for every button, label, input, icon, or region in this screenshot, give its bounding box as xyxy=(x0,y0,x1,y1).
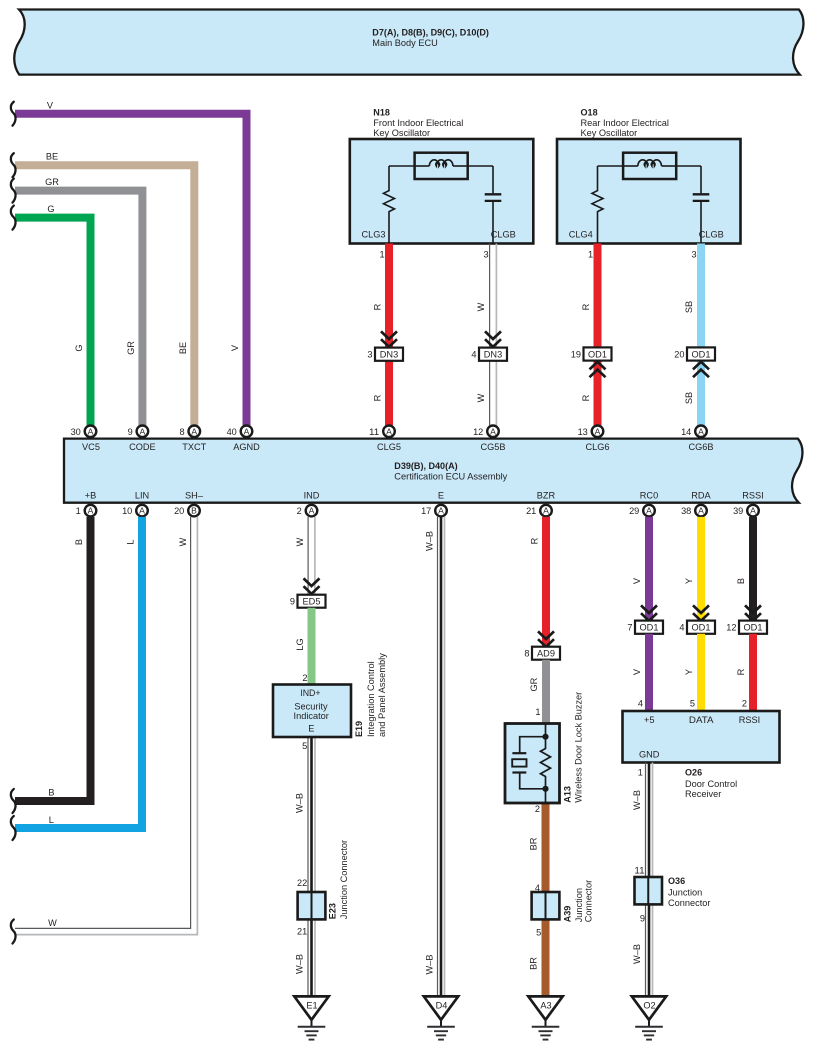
svg-text:Y: Y xyxy=(684,578,694,584)
svg-text:A: A xyxy=(543,506,549,516)
svg-text:RSSI: RSSI xyxy=(739,715,760,725)
svg-text:A: A xyxy=(191,426,197,436)
svg-text:+B: +B xyxy=(85,491,97,501)
svg-text:RDA: RDA xyxy=(691,491,711,501)
svg-text:E: E xyxy=(438,491,444,501)
svg-text:IND+: IND+ xyxy=(300,688,320,698)
svg-text:VC5: VC5 xyxy=(82,442,100,452)
svg-text:L: L xyxy=(126,539,136,544)
svg-text:38: 38 xyxy=(681,506,691,516)
svg-text:SB: SB xyxy=(684,392,694,404)
svg-text:A: A xyxy=(244,426,250,436)
svg-text:11: 11 xyxy=(634,866,644,876)
svg-text:R: R xyxy=(736,668,746,675)
svg-text:W–B: W–B xyxy=(295,793,305,813)
svg-text:SH–: SH– xyxy=(185,491,204,501)
svg-text:5: 5 xyxy=(536,927,541,937)
svg-text:13: 13 xyxy=(578,427,588,437)
svg-text:Integration Control: Integration Control xyxy=(366,661,376,737)
svg-text:Main Body ECU: Main Body ECU xyxy=(372,38,437,48)
svg-text:IND: IND xyxy=(304,491,320,501)
svg-text:A: A xyxy=(309,506,315,516)
svg-text:Connector: Connector xyxy=(583,880,593,922)
svg-text:A: A xyxy=(490,426,496,436)
svg-text:5: 5 xyxy=(690,699,695,709)
svg-text:A: A xyxy=(140,426,146,436)
svg-text:9: 9 xyxy=(640,913,645,923)
svg-text:GR: GR xyxy=(45,177,59,187)
svg-text:21: 21 xyxy=(297,926,307,936)
svg-text:AGND: AGND xyxy=(233,442,260,452)
svg-text:Y: Y xyxy=(684,669,694,675)
svg-text:40: 40 xyxy=(227,427,237,437)
svg-text:CLGB: CLGB xyxy=(491,229,516,239)
svg-text:14: 14 xyxy=(681,427,691,437)
svg-text:2: 2 xyxy=(297,506,302,516)
svg-text:12: 12 xyxy=(726,623,736,633)
svg-text:Indicator: Indicator xyxy=(294,711,329,721)
svg-text:OD1: OD1 xyxy=(692,623,711,633)
svg-text:3: 3 xyxy=(483,249,488,259)
svg-text:Wireless Door Lock Buzzer: Wireless Door Lock Buzzer xyxy=(574,692,584,803)
svg-text:DN3: DN3 xyxy=(484,350,502,360)
svg-text:GR: GR xyxy=(529,677,539,691)
svg-text:20: 20 xyxy=(174,506,184,516)
svg-text:GND: GND xyxy=(639,749,660,759)
svg-text:B: B xyxy=(48,788,54,798)
svg-text:5: 5 xyxy=(302,741,307,751)
svg-text:E23: E23 xyxy=(327,903,337,919)
svg-text:3: 3 xyxy=(691,249,696,259)
svg-text:AD9: AD9 xyxy=(537,649,555,659)
svg-text:RC0: RC0 xyxy=(640,491,658,501)
svg-text:E1: E1 xyxy=(306,1001,317,1011)
svg-text:DN3: DN3 xyxy=(380,350,398,360)
svg-text:V: V xyxy=(632,668,642,675)
svg-text:10: 10 xyxy=(122,506,132,516)
svg-text:E: E xyxy=(308,723,314,733)
svg-text:A: A xyxy=(595,426,601,436)
svg-text:CLG3: CLG3 xyxy=(362,229,386,239)
svg-text:4: 4 xyxy=(638,699,643,709)
svg-text:A: A xyxy=(88,506,94,516)
svg-text:Junction Connector: Junction Connector xyxy=(339,840,349,919)
svg-text:W: W xyxy=(48,918,57,928)
svg-text:TXCT: TXCT xyxy=(182,442,206,452)
svg-text:A: A xyxy=(139,506,145,516)
svg-text:GR: GR xyxy=(126,341,136,355)
svg-text:RSSI: RSSI xyxy=(742,491,763,501)
svg-text:CLG6: CLG6 xyxy=(585,442,609,452)
svg-text:R: R xyxy=(372,394,382,401)
svg-text:OD1: OD1 xyxy=(640,623,659,633)
svg-text:4: 4 xyxy=(535,883,540,893)
svg-text:V: V xyxy=(230,344,240,351)
svg-text:CLG4: CLG4 xyxy=(569,229,593,239)
svg-text:R: R xyxy=(581,303,591,310)
svg-text:D7(A), D8(B), D9(C), D10(D): D7(A), D8(B), D9(C), D10(D) xyxy=(372,28,489,38)
svg-text:BZR: BZR xyxy=(537,491,556,501)
svg-text:Key Oscillator: Key Oscillator xyxy=(581,128,638,138)
svg-text:29: 29 xyxy=(629,506,639,516)
svg-text:1: 1 xyxy=(379,249,384,259)
svg-text:Security: Security xyxy=(294,701,328,711)
svg-text:O2: O2 xyxy=(643,1001,655,1011)
svg-text:8: 8 xyxy=(179,427,184,437)
svg-text:2: 2 xyxy=(302,673,307,683)
svg-text:L: L xyxy=(49,815,54,825)
svg-text:21: 21 xyxy=(526,506,536,516)
svg-text:A: A xyxy=(438,506,444,516)
svg-text:BE: BE xyxy=(46,151,58,161)
svg-text:BR: BR xyxy=(529,957,539,970)
svg-text:+5: +5 xyxy=(644,715,654,725)
svg-text:SB: SB xyxy=(684,301,694,313)
svg-text:22: 22 xyxy=(297,878,307,888)
svg-text:W: W xyxy=(476,393,486,402)
svg-text:A: A xyxy=(698,506,704,516)
svg-text:W–B: W–B xyxy=(425,531,435,551)
svg-text:Junction: Junction xyxy=(668,888,702,898)
svg-text:A: A xyxy=(88,426,94,436)
svg-text:9: 9 xyxy=(128,427,133,437)
svg-text:CODE: CODE xyxy=(129,442,156,452)
svg-text:20: 20 xyxy=(674,349,684,359)
svg-text:W–B: W–B xyxy=(632,944,642,964)
svg-text:CG6B: CG6B xyxy=(688,442,713,452)
svg-text:4: 4 xyxy=(679,623,684,633)
svg-text:V: V xyxy=(632,577,642,584)
svg-text:A: A xyxy=(698,426,704,436)
svg-text:O36: O36 xyxy=(668,876,685,886)
svg-text:19: 19 xyxy=(571,349,581,359)
svg-text:B: B xyxy=(191,506,197,516)
svg-text:2: 2 xyxy=(742,699,747,709)
svg-text:O26: O26 xyxy=(685,768,702,778)
svg-text:O18: O18 xyxy=(581,108,598,118)
svg-text:OD1: OD1 xyxy=(692,349,711,359)
svg-text:R: R xyxy=(581,394,591,401)
svg-text:B: B xyxy=(74,539,84,545)
svg-text:N18: N18 xyxy=(373,108,390,118)
svg-text:Rear Indoor Electrical: Rear Indoor Electrical xyxy=(581,118,669,128)
svg-text:BE: BE xyxy=(178,342,188,354)
svg-text:Receiver: Receiver xyxy=(685,789,721,799)
svg-text:W: W xyxy=(295,537,305,546)
svg-text:W–B: W–B xyxy=(425,955,435,975)
svg-text:E19: E19 xyxy=(354,721,364,737)
svg-text:W: W xyxy=(476,302,486,311)
svg-text:W–B: W–B xyxy=(632,790,642,810)
svg-text:CLGB: CLGB xyxy=(699,229,724,239)
svg-text:DATA: DATA xyxy=(689,715,714,725)
svg-text:A: A xyxy=(750,506,756,516)
svg-text:Connector: Connector xyxy=(668,898,710,908)
svg-text:3: 3 xyxy=(367,350,372,360)
svg-text:9: 9 xyxy=(290,597,295,607)
svg-text:A13: A13 xyxy=(563,786,573,803)
svg-text:7: 7 xyxy=(627,623,632,633)
svg-text:Door Control: Door Control xyxy=(685,779,737,789)
svg-text:A: A xyxy=(386,426,392,436)
svg-text:D4: D4 xyxy=(436,1001,448,1011)
svg-text:LG: LG xyxy=(295,638,305,650)
svg-text:OD1: OD1 xyxy=(588,349,607,359)
svg-text:V: V xyxy=(47,100,54,110)
svg-text:8: 8 xyxy=(524,649,529,659)
svg-text:1: 1 xyxy=(588,249,593,259)
svg-text:W: W xyxy=(178,537,188,546)
svg-text:1: 1 xyxy=(76,506,81,516)
svg-text:R: R xyxy=(372,303,382,310)
svg-text:4: 4 xyxy=(471,350,476,360)
svg-text:39: 39 xyxy=(733,506,743,516)
svg-text:17: 17 xyxy=(421,506,431,516)
svg-text:LIN: LIN xyxy=(135,491,149,501)
svg-text:CLG5: CLG5 xyxy=(377,442,401,452)
svg-text:B: B xyxy=(736,578,746,584)
svg-text:CG5B: CG5B xyxy=(480,442,505,452)
svg-text:D39(B), D40(A): D39(B), D40(A) xyxy=(394,461,457,471)
svg-text:A: A xyxy=(646,506,652,516)
svg-text:12: 12 xyxy=(473,427,483,437)
svg-text:Front Indoor Electrical: Front Indoor Electrical xyxy=(373,118,463,128)
svg-text:2: 2 xyxy=(535,804,540,814)
svg-text:G: G xyxy=(74,344,84,351)
svg-text:1: 1 xyxy=(638,768,643,778)
svg-text:ED5: ED5 xyxy=(303,597,321,607)
svg-text:OD1: OD1 xyxy=(744,623,763,633)
svg-text:BR: BR xyxy=(529,837,539,850)
svg-text:R: R xyxy=(529,537,539,544)
svg-text:A39: A39 xyxy=(562,906,572,923)
svg-text:G: G xyxy=(47,204,54,214)
svg-text:A3: A3 xyxy=(540,1001,551,1011)
svg-text:Certification ECU Assembly: Certification ECU Assembly xyxy=(394,472,507,482)
svg-text:and Panel Assembly: and Panel Assembly xyxy=(377,653,387,737)
svg-text:Key Oscillator: Key Oscillator xyxy=(373,128,430,138)
svg-text:30: 30 xyxy=(71,427,81,437)
svg-text:Junction: Junction xyxy=(574,888,584,922)
svg-text:1: 1 xyxy=(535,707,540,717)
svg-text:W–B: W–B xyxy=(295,954,305,974)
svg-text:11: 11 xyxy=(369,427,379,437)
